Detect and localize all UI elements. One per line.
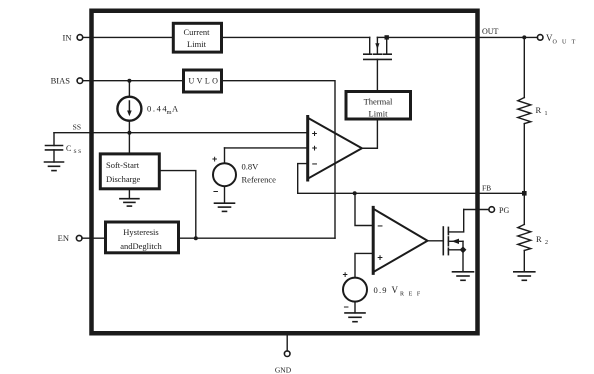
svg-text:0.8V: 0.8V xyxy=(242,162,260,172)
svg-text:Discharge: Discharge xyxy=(106,174,141,184)
svg-text:BIAS: BIAS xyxy=(51,76,71,86)
svg-text:UVLO: UVLO xyxy=(189,77,221,86)
op-amp U2 PG comparator xyxy=(373,207,427,273)
wire FB xyxy=(298,192,525,194)
wire SS xyxy=(54,132,308,134)
wire error amp output to Thermal Limit xyxy=(362,119,378,148)
capacitor CSS xyxy=(46,133,83,162)
svg-text:0.9: 0.9 xyxy=(374,285,388,295)
wire pass FET to OUT xyxy=(387,36,538,38)
svg-text:OUT: OUT xyxy=(553,40,581,46)
wire IN to Current Limit xyxy=(83,36,172,38)
pin IN xyxy=(63,32,83,42)
label 0.44mA xyxy=(147,104,179,117)
svg-text:+: + xyxy=(312,129,318,140)
pin BIAS xyxy=(51,76,83,86)
node FB junction xyxy=(522,191,527,196)
Current Limit block xyxy=(173,23,221,52)
svg-text:−: − xyxy=(344,302,349,312)
svg-text:EN: EN xyxy=(58,233,69,243)
svg-text:Limit: Limit xyxy=(369,109,389,119)
wire BIAS to UVLO xyxy=(83,80,184,82)
svg-text:−: − xyxy=(377,221,383,232)
svg-text:Reference: Reference xyxy=(242,175,277,185)
svg-text:REF: REF xyxy=(400,292,425,298)
Thermal Limit block xyxy=(346,92,411,120)
svg-text:+: + xyxy=(312,143,318,154)
IC boundary box xyxy=(92,11,478,334)
svg-text:m: m xyxy=(167,109,172,116)
svg-text:−: − xyxy=(312,159,318,170)
wire Hysteresis output xyxy=(179,237,336,239)
voltage source 0.8V reference xyxy=(212,148,308,197)
svg-text:SS: SS xyxy=(74,149,83,155)
ground Soft-Start Discharge xyxy=(120,189,139,206)
svg-text:Soft-Start: Soft-Start xyxy=(106,160,140,170)
wire PG xyxy=(464,209,489,211)
ground 0.9 VREF xyxy=(345,302,365,322)
wire error amp minus input to FB xyxy=(298,164,308,194)
wire SS to Soft-Start Discharge xyxy=(128,133,130,154)
voltage source 0.9 VREF xyxy=(343,270,425,313)
svg-text:FB: FB xyxy=(482,183,491,192)
wire comparator plus input to 0.9VREF xyxy=(355,253,373,277)
svg-text:+: + xyxy=(377,253,383,264)
node SS junction xyxy=(127,131,131,135)
Soft-Start Discharge block xyxy=(100,154,159,189)
wire EN to Hysteresis xyxy=(82,237,106,239)
svg-text:OUT: OUT xyxy=(482,27,499,36)
svg-text:IN: IN xyxy=(63,32,72,42)
node current source tap xyxy=(127,79,131,83)
svg-text:GND: GND xyxy=(275,365,292,374)
Hysteresis and Deglitch block xyxy=(106,222,179,253)
wire Soft-Start Discharge output xyxy=(160,171,196,239)
svg-text:Thermal: Thermal xyxy=(364,97,393,107)
node VOUT junction xyxy=(522,35,526,39)
pin PG xyxy=(489,206,510,215)
svg-text:SS: SS xyxy=(73,122,81,131)
pin VOUT xyxy=(537,33,580,46)
svg-text:−: − xyxy=(213,187,218,197)
transistor Q1 pass FET xyxy=(364,35,391,91)
wire UVLO output xyxy=(222,81,336,239)
svg-text:Hysteresis: Hysteresis xyxy=(123,227,158,237)
ground Q2 xyxy=(453,272,474,281)
svg-text:0.44: 0.44 xyxy=(147,104,168,114)
svg-text:V: V xyxy=(392,285,399,295)
resistor R2 xyxy=(518,193,548,271)
svg-text:C: C xyxy=(66,144,71,153)
svg-text:Limit: Limit xyxy=(187,39,207,49)
UVLO block xyxy=(184,70,222,92)
ground CSS xyxy=(45,162,64,171)
op-amp U1 error amplifier xyxy=(308,117,362,181)
wire comparator minus input to FB xyxy=(355,193,373,225)
svg-text:Current: Current xyxy=(184,27,211,37)
svg-text:R: R xyxy=(536,234,542,244)
node comparator tap xyxy=(353,191,357,195)
ground R2 xyxy=(514,272,535,281)
wire Current Limit to pass FET xyxy=(223,36,370,38)
svg-text:2: 2 xyxy=(545,240,548,246)
ground 0.8V reference xyxy=(215,186,235,211)
pin GND xyxy=(275,336,292,374)
svg-text:1: 1 xyxy=(545,111,548,117)
svg-text:+: + xyxy=(212,154,217,164)
svg-text:+: + xyxy=(343,270,348,280)
current source I1 0.44mA xyxy=(117,81,141,133)
resistor R1 xyxy=(518,37,548,193)
node soft-start junction xyxy=(194,236,198,240)
transistor Q2 PG output FET xyxy=(443,210,466,272)
svg-text:PG: PG xyxy=(499,206,509,215)
pin EN xyxy=(58,233,82,243)
svg-text:R: R xyxy=(536,105,542,115)
svg-text:A: A xyxy=(172,104,179,114)
svg-text:andDeglitch: andDeglitch xyxy=(120,241,162,251)
wire comparator output to Q2 gate xyxy=(428,240,444,242)
